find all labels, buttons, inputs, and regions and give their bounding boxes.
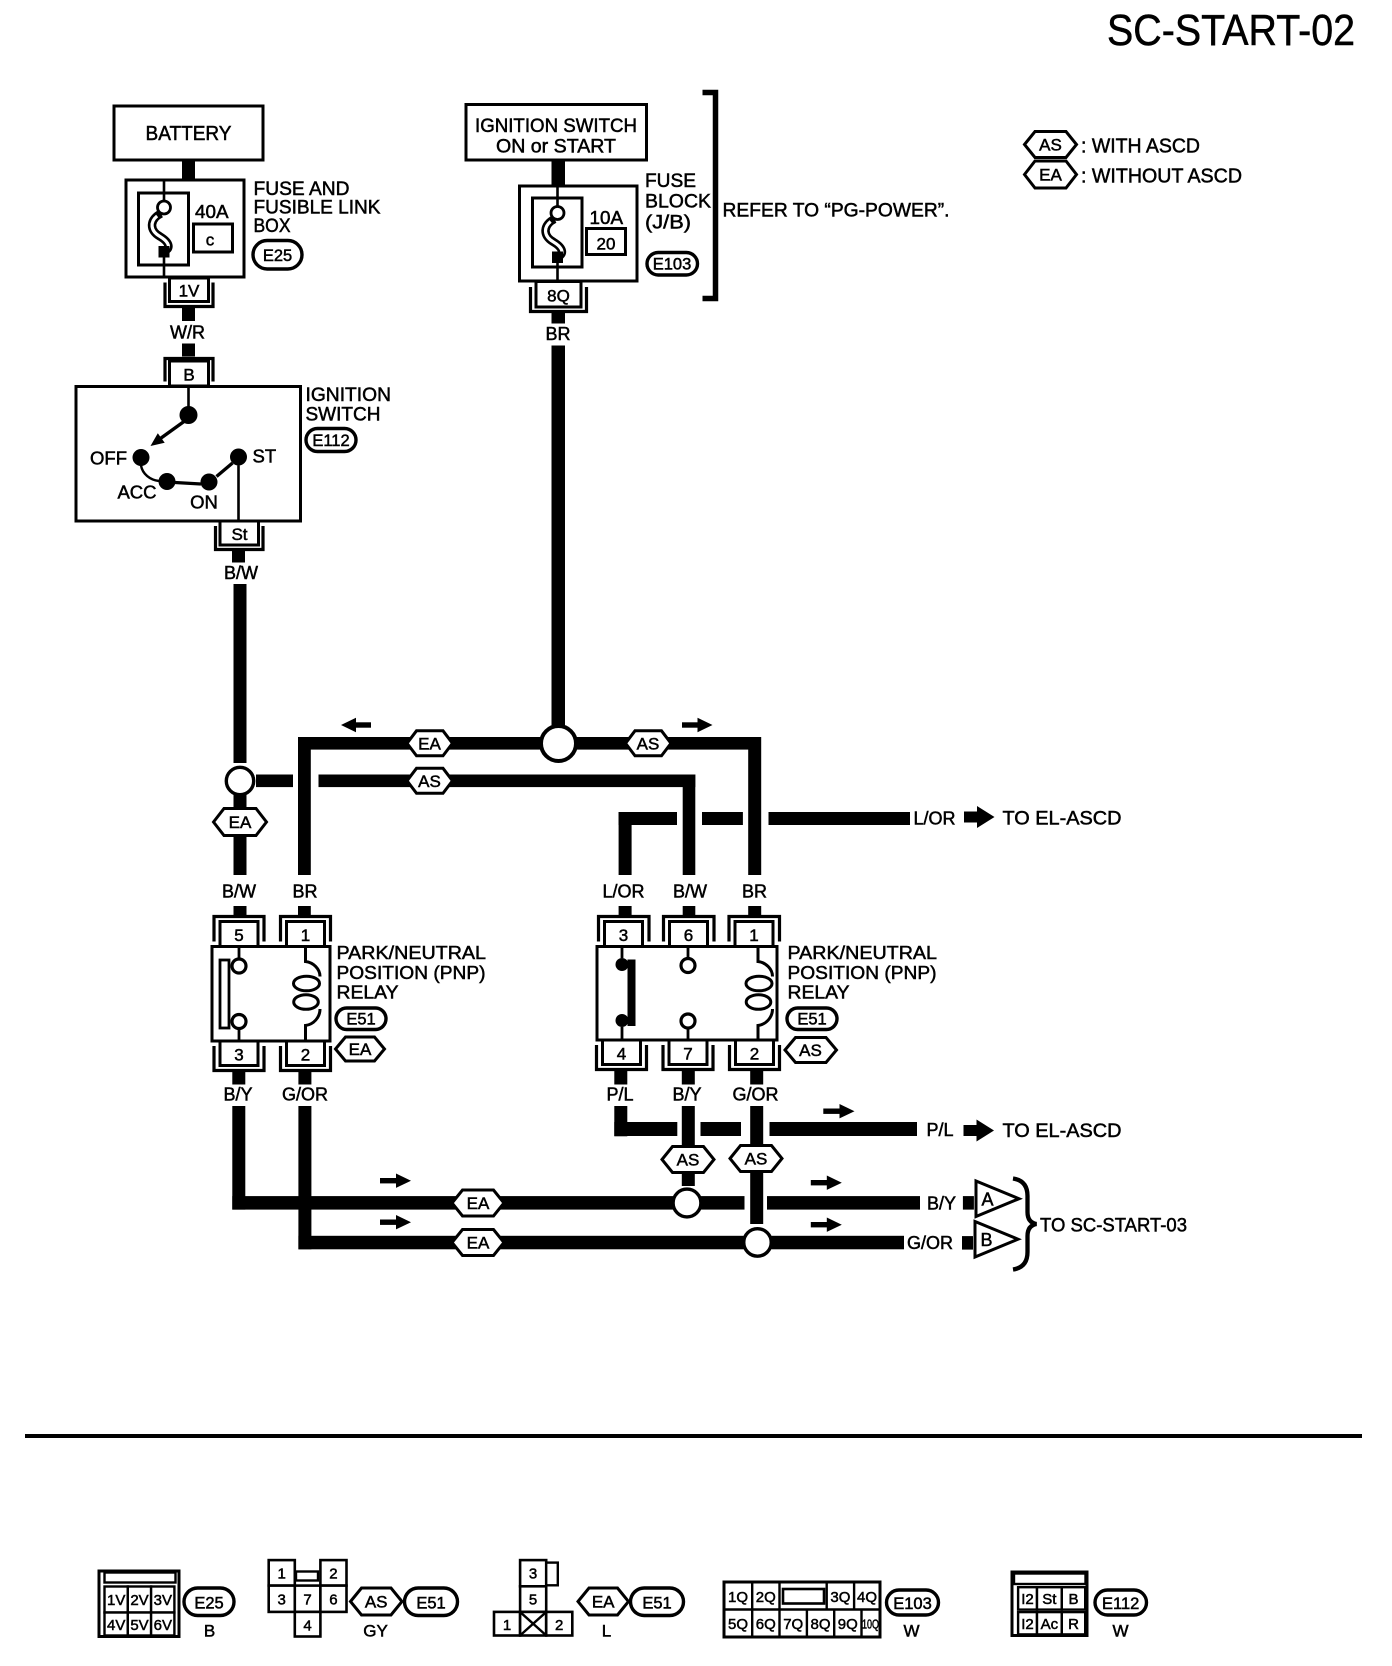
wire node to EA hexagon [234, 795, 247, 809]
park/neutral position relay K2 body [597, 947, 777, 1041]
relay K1 pin 2 connector [281, 1041, 331, 1071]
svg-text:E25: E25 [194, 1595, 223, 1613]
junction node on wire 1 [541, 726, 576, 761]
connector label E25 oval [253, 241, 302, 270]
svg-text:c: c [206, 231, 215, 250]
connector view E25 [99, 1571, 179, 1637]
wire BR stub [552, 313, 566, 324]
svg-text:BR: BR [742, 882, 767, 902]
wire BR right lower stub [748, 906, 761, 916]
connector view E112 [1012, 1572, 1087, 1636]
svg-text:E51: E51 [416, 1595, 445, 1613]
svg-text:BATTERY: BATTERY [146, 123, 232, 145]
svg-text:5: 5 [529, 1592, 537, 1609]
svg-text:6V: 6V [154, 1617, 172, 1634]
hexagon EA on wire 1 [407, 731, 453, 756]
connector 8Q [531, 282, 587, 312]
svg-text:2V: 2V [130, 1592, 148, 1609]
svg-text:OFF: OFF [90, 448, 127, 469]
relay K2 pin 3 connector [599, 917, 650, 947]
wire 3 horizontal L/OR segment 1 [619, 812, 677, 825]
hexagon EA on B/Y run [452, 1190, 504, 1216]
ignition switch E112 box [76, 387, 301, 522]
svg-text:G/OR: G/OR [907, 1233, 953, 1253]
fuse and fusible link box E25 [126, 180, 244, 277]
connector 1V [165, 278, 213, 307]
svg-text:E51: E51 [346, 1011, 375, 1029]
svg-text:I2: I2 [1021, 1591, 1034, 1608]
connector B [165, 359, 213, 387]
fuse c box [194, 224, 233, 252]
connector label E103 oval [647, 253, 698, 276]
hexagon EA on G/OR run [452, 1230, 504, 1256]
svg-text:BOX: BOX [254, 216, 291, 237]
svg-text:: WITH ASCD: : WITH ASCD [1081, 136, 1200, 158]
svg-text:G/OR: G/OR [732, 1085, 778, 1105]
hexagon AS on wire 2 [407, 768, 453, 793]
connector label E51 oval bottom right [631, 1588, 684, 1616]
svg-text:2: 2 [750, 1045, 759, 1064]
ignition switch internals [133, 388, 248, 520]
svg-text:E103: E103 [893, 1595, 932, 1613]
connector label E112 oval [306, 429, 356, 452]
svg-text:EA: EA [467, 1234, 490, 1253]
svg-text:2: 2 [555, 1617, 563, 1634]
wire 3 horizontal L/OR segment 2 [702, 812, 743, 825]
wire 3 L/OR vertical [619, 812, 632, 875]
svg-text:AS: AS [745, 1150, 768, 1169]
svg-text:B/W: B/W [222, 882, 256, 902]
svg-text:8Q: 8Q [547, 287, 570, 306]
wire BR long vertical [552, 346, 566, 727]
svg-text:10A: 10A [590, 208, 624, 228]
wire 2 horizontal AS branch [319, 775, 696, 788]
hexagon AS on G/OR right [730, 1146, 782, 1172]
relay K2 closed contact [616, 947, 636, 1040]
svg-text:POSITION (PNP): POSITION (PNP) [337, 962, 486, 983]
svg-text:FUSE: FUSE [645, 171, 696, 192]
wire B/Y left vertical [232, 1106, 245, 1210]
svg-text:7: 7 [303, 1592, 311, 1609]
svg-text:3V: 3V [154, 1592, 172, 1609]
svg-text:AS: AS [418, 772, 441, 791]
wire B/W mid vertical [683, 775, 696, 876]
svg-text:4: 4 [617, 1045, 626, 1064]
wire battery to fuse box [182, 159, 195, 181]
relay K1 contact side [220, 947, 246, 1041]
svg-text:E103: E103 [653, 256, 692, 274]
terminal triangle B [975, 1222, 1018, 1258]
svg-text:BLOCK: BLOCK [645, 192, 711, 213]
connector label E51 oval bottom left [405, 1588, 458, 1616]
wire B/W long vertical [234, 584, 247, 763]
svg-text:1: 1 [278, 1566, 286, 1583]
svg-text:RELAY: RELAY [788, 982, 850, 1003]
arrow on B/Y run right [811, 1176, 842, 1190]
hexagon EA bottom [578, 1588, 629, 1615]
relay K2 pin 2 connector [730, 1040, 780, 1070]
wire P/L vertical [614, 1106, 627, 1136]
svg-text:BR: BR [292, 882, 317, 902]
wire W/R lower stub [182, 344, 195, 357]
svg-text:(J/B): (J/B) [645, 213, 691, 234]
battery B1 [114, 106, 263, 160]
wire B/Y run segment 2 [701, 1196, 745, 1210]
svg-text:A: A [982, 1190, 994, 1210]
svg-text:REFER TO “PG-POWER”.: REFER TO “PG-POWER”. [723, 201, 950, 222]
hexagon EA at relay K1 [336, 1037, 385, 1061]
svg-text:EA: EA [229, 813, 252, 832]
svg-text:1V: 1V [179, 282, 200, 301]
connector view E103 [724, 1582, 880, 1637]
relay K2 pin 7 connector [663, 1040, 713, 1070]
svg-text:3: 3 [278, 1592, 286, 1609]
bracket for refer note [703, 93, 716, 299]
svg-text:St: St [231, 525, 247, 544]
svg-text:EA: EA [418, 734, 441, 753]
svg-text:SWITCH: SWITCH [306, 405, 381, 426]
svg-text:W/R: W/R [170, 323, 205, 343]
connector label E112 oval bottom [1095, 1590, 1147, 1615]
svg-text:8Q: 8Q [810, 1616, 830, 1633]
wire G/OR right stub below K2 pin 2 [750, 1071, 763, 1085]
svg-text:4Q: 4Q [857, 1589, 877, 1606]
svg-text:GY: GY [363, 1622, 388, 1641]
svg-text:B/W: B/W [224, 563, 258, 583]
relay K1 pin 5 connector [214, 917, 264, 947]
svg-text:1: 1 [503, 1617, 511, 1634]
svg-text:2Q: 2Q [756, 1589, 776, 1606]
svg-text:2: 2 [329, 1566, 337, 1583]
svg-text:L/OR: L/OR [602, 882, 644, 902]
svg-text:E51: E51 [642, 1595, 671, 1613]
svg-text:AS: AS [677, 1151, 700, 1170]
separator line [25, 1434, 1362, 1438]
relay K2 open contact [681, 947, 695, 1040]
svg-text:L: L [602, 1622, 611, 1641]
svg-text:1V: 1V [107, 1592, 125, 1609]
svg-text:6Q: 6Q [756, 1616, 776, 1633]
svg-text:RELAY: RELAY [337, 982, 399, 1003]
svg-text:G/OR: G/OR [282, 1085, 328, 1105]
wire B/W left lower stub [234, 906, 247, 916]
svg-text:2: 2 [301, 1046, 310, 1065]
wire P/L horizontal segment 2 [701, 1122, 742, 1136]
svg-text:3Q: 3Q [830, 1589, 850, 1606]
svg-text:E51: E51 [797, 1011, 826, 1029]
wire B/Y right vertical lower [682, 1173, 695, 1187]
connector view E51 GY [269, 1560, 347, 1636]
svg-text:TO EL-ASCD: TO EL-ASCD [1003, 1121, 1122, 1142]
wire G/OR right vertical lower [750, 1172, 763, 1225]
relay K1 pin 1 connector [281, 917, 331, 947]
svg-text:3: 3 [619, 926, 628, 945]
wire B/Y right vertical upper [682, 1106, 695, 1146]
fusible link 40A c [152, 181, 170, 277]
svg-text:B: B [981, 1230, 993, 1250]
svg-text:E25: E25 [263, 247, 292, 265]
connector label E51 oval right [787, 1008, 837, 1030]
svg-text:7: 7 [683, 1045, 692, 1064]
arrow on G/OR run right [811, 1218, 842, 1232]
wire G/OR run segment 1 [298, 1236, 743, 1250]
svg-text:L/OR: L/OR [914, 809, 956, 829]
solid arrow to EL-ASCD lower [964, 1120, 995, 1142]
legend EA hexagon [1025, 161, 1077, 188]
svg-text:5Q: 5Q [728, 1616, 748, 1633]
fuse 10A 20 symbol [546, 187, 564, 281]
svg-text:PARK/NEUTRAL: PARK/NEUTRAL [788, 942, 938, 963]
label PARK/NEUTRAL POSITION (PNP) RELAY right [788, 942, 938, 1003]
wire W/R upper stub [182, 308, 195, 321]
relay K1 coil [294, 947, 321, 1041]
wire B/Y run segment 3 [767, 1196, 920, 1210]
svg-text:TO EL-ASCD: TO EL-ASCD [1003, 809, 1122, 830]
junction node on B/W wire [226, 767, 253, 794]
arrow on P/L run [823, 1104, 854, 1118]
hexagon AS bottom [351, 1588, 403, 1615]
svg-text:TO SC-START-03: TO SC-START-03 [1040, 1216, 1187, 1237]
svg-text:EA: EA [467, 1194, 490, 1213]
fuse block J/B box E103 [520, 186, 638, 281]
wire BR right vertical [748, 737, 761, 875]
relay K1 pin 3 connector [214, 1041, 264, 1071]
hexagon AS on B/Y right [662, 1147, 714, 1173]
wire P/L horizontal segment 3 [770, 1122, 918, 1136]
hexagon AS on wire 1 [626, 731, 672, 756]
hexagon EA on B/W wire [214, 809, 267, 836]
svg-text:B: B [204, 1622, 215, 1641]
svg-text:4V: 4V [107, 1617, 125, 1634]
svg-text:4: 4 [303, 1618, 311, 1635]
svg-text:EA: EA [1039, 166, 1062, 185]
svg-text:BR: BR [545, 324, 570, 344]
label FUSE AND FUSIBLE LINK BOX [254, 179, 381, 237]
connector St [216, 521, 264, 550]
svg-text:B: B [1068, 1591, 1078, 1608]
hexagon AS at relay K2 [785, 1038, 837, 1063]
svg-text:20: 20 [597, 235, 616, 254]
svg-text:1Q: 1Q [728, 1589, 748, 1606]
wire BR left vertical [298, 737, 311, 875]
svg-text:IGNITION: IGNITION [306, 385, 392, 406]
svg-text:R: R [1068, 1616, 1079, 1633]
svg-text:SC-START-02: SC-START-02 [1107, 6, 1355, 55]
connector view E51 L [494, 1560, 572, 1635]
svg-text:St: St [1042, 1591, 1057, 1608]
arrow right on wire 1 [682, 718, 713, 732]
wire G/OR stub below K1 pin 2 [298, 1071, 311, 1085]
svg-text:ACC: ACC [117, 482, 156, 503]
junction node on G/OR run [744, 1229, 772, 1257]
wire B/Y run segment 1 [232, 1196, 673, 1210]
svg-text:1: 1 [749, 926, 758, 945]
wire G/OR run segment 2 [771, 1236, 904, 1250]
svg-text:W: W [903, 1622, 919, 1641]
terminal square A [963, 1196, 974, 1210]
connector label E51 oval left [336, 1008, 386, 1030]
brace to SC-START-03 [1013, 1179, 1037, 1270]
svg-text:5: 5 [234, 926, 243, 945]
svg-text:ON or START: ON or START [496, 137, 616, 158]
svg-text:6: 6 [329, 1592, 337, 1609]
svg-text:40A: 40A [195, 202, 229, 222]
label PARK/NEUTRAL POSITION (PNP) RELAY left [337, 942, 487, 1003]
svg-text:IGNITION SWITCH: IGNITION SWITCH [475, 116, 637, 137]
svg-text:P/L: P/L [606, 1085, 633, 1105]
ignition switch ON or START box [466, 105, 647, 161]
svg-text:9Q: 9Q [838, 1616, 858, 1633]
svg-text:ON: ON [190, 492, 218, 513]
svg-text:B/Y: B/Y [927, 1194, 956, 1214]
solid arrow to EL-ASCD [964, 806, 995, 828]
park/neutral position relay K1 body [212, 947, 330, 1042]
svg-text:3: 3 [234, 1046, 243, 1065]
wire to fuse block [552, 160, 566, 186]
wire L/OR lower stub [619, 906, 632, 916]
wire 3 horizontal L/OR segment 3 [769, 812, 911, 825]
arrow left on wire 1 [341, 718, 371, 732]
svg-text:EA: EA [349, 1040, 372, 1059]
svg-text:10Q: 10Q [862, 1618, 879, 1632]
svg-text:E112: E112 [1102, 1595, 1139, 1613]
wire G/OR right vertical upper [750, 1106, 763, 1145]
fuse 20 box [587, 229, 626, 255]
svg-text:P/L: P/L [927, 1120, 954, 1140]
wire B/Y stub below K1 pin 3 [232, 1071, 245, 1085]
label IGNITION SWITCH [306, 385, 392, 426]
svg-text:E112: E112 [312, 432, 349, 450]
svg-text:I2: I2 [1021, 1616, 1034, 1633]
relay K2 coil [746, 947, 773, 1040]
svg-text:POSITION (PNP): POSITION (PNP) [788, 962, 937, 983]
svg-text:ST: ST [253, 446, 277, 467]
svg-text:B/Y: B/Y [672, 1085, 701, 1105]
wire 1 horizontal BR distribution [298, 737, 761, 750]
connector label E103 oval bottom [887, 1590, 939, 1615]
svg-text:AS: AS [799, 1041, 822, 1060]
relay K2 pin 6 connector [664, 917, 715, 947]
svg-text:AS: AS [365, 1593, 388, 1612]
relay K2 pin 4 connector [597, 1040, 647, 1070]
wire 2 stub from node [256, 775, 293, 788]
legend AS hexagon [1025, 132, 1077, 158]
wire P/L horizontal segment 1 [614, 1122, 677, 1136]
svg-text:PARK/NEUTRAL: PARK/NEUTRAL [337, 942, 487, 963]
label FUSE BLOCK (J/B) [645, 171, 711, 234]
relay K2 pin 1 connector [729, 917, 780, 947]
svg-text:W: W [1112, 1622, 1128, 1641]
svg-text:3: 3 [529, 1566, 537, 1583]
terminal square B [962, 1236, 973, 1250]
svg-text:AS: AS [1039, 136, 1062, 155]
arrow on G/OR run left [380, 1215, 411, 1229]
junction node on B/Y run [673, 1189, 701, 1217]
svg-text:AS: AS [637, 734, 660, 753]
arrow on B/Y run left [380, 1174, 411, 1188]
wire EA hexagon to relay [234, 836, 247, 876]
svg-text:7Q: 7Q [783, 1616, 803, 1633]
svg-text:: WITHOUT ASCD: : WITHOUT ASCD [1081, 166, 1242, 188]
svg-text:6: 6 [684, 926, 693, 945]
svg-text:EA: EA [592, 1593, 615, 1612]
wire B/W stub below St [232, 551, 245, 563]
wire B/W mid lower stub [683, 906, 696, 916]
terminal triangle A [976, 1181, 1019, 1217]
wire G/OR left vertical [298, 1106, 311, 1249]
wire P/L stub below K2 pin 4 [614, 1071, 627, 1085]
svg-text:Ac: Ac [1041, 1616, 1059, 1633]
wire B/Y right stub below K2 pin 7 [682, 1071, 695, 1085]
svg-text:B/W: B/W [673, 882, 707, 902]
svg-text:B/Y: B/Y [223, 1085, 252, 1105]
connector label E25 oval bottom [184, 1588, 234, 1616]
wire BR left lower stub [298, 906, 311, 916]
svg-text:1: 1 [301, 926, 310, 945]
svg-text:B: B [183, 366, 194, 385]
svg-text:5V: 5V [130, 1617, 148, 1634]
